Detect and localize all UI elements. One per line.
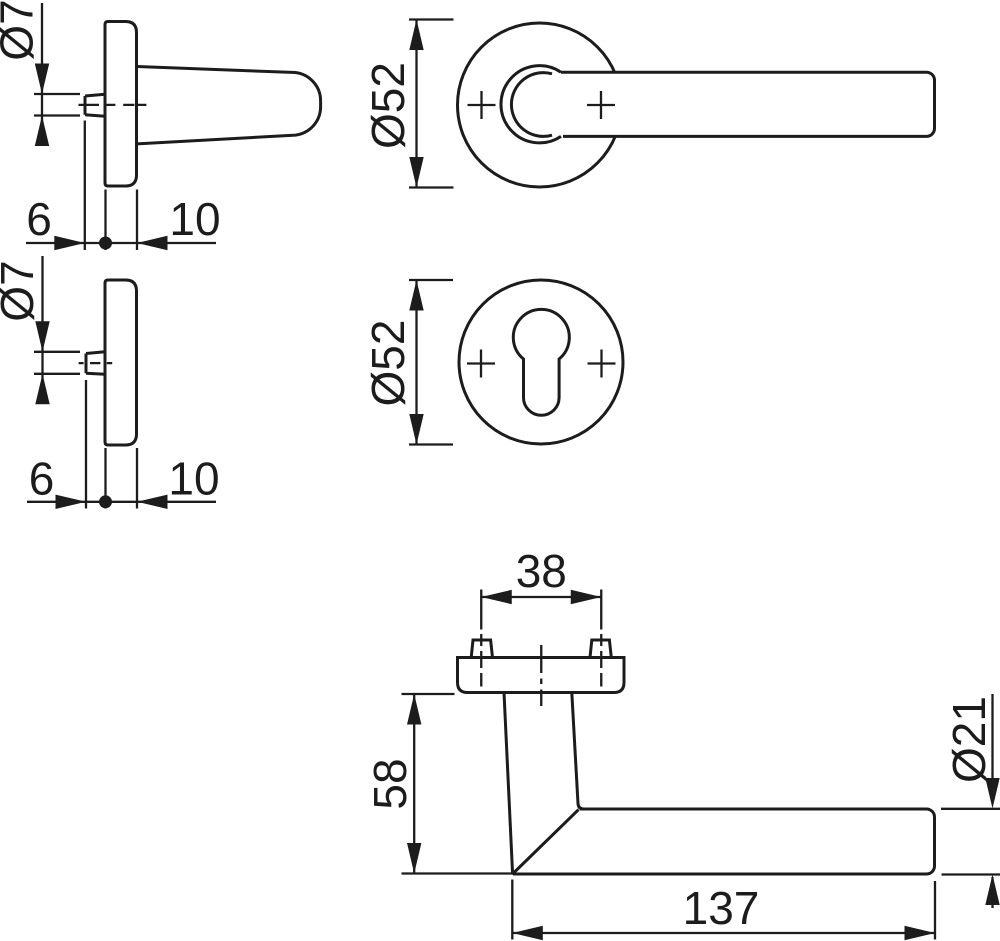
- dimension 58 : ticks: [402, 694, 513, 874]
- dimension Ø52 (view 3) : ticks: [409, 20, 454, 188]
- dimension Ø52 (view 3) : arrow down: [409, 157, 423, 188]
- svg-text:Ø7: Ø7: [0, 260, 43, 321]
- centre line view 2: [79, 362, 113, 364]
- extension lines bottom (view 2): [86, 380, 137, 509]
- dimension Ø7 (view 1) : dim line: [41, 3, 43, 146]
- lever bar white mask: [540, 72, 935, 136]
- extension lines 38: [481, 590, 601, 630]
- dimension 6/10 (view 1) : dim line: [26, 242, 216, 244]
- euro profile keyhole: [513, 309, 569, 415]
- svg-text:Ø52: Ø52: [362, 320, 414, 407]
- neck left edge: [504, 693, 513, 874]
- svg-text:Ø7: Ø7: [0, 0, 43, 61]
- svg-text:6: 6: [29, 453, 55, 505]
- dimension Ø7 (view 2) : dim line: [41, 256, 43, 404]
- dimension 137 : arrow left: [512, 926, 543, 940]
- dimension Ø21 : dim line: [991, 694, 993, 908]
- rose plate side view: [105, 22, 137, 187]
- dimension 6 (view 1) : arrow right: [54, 236, 85, 250]
- svg-text:38: 38: [516, 545, 567, 597]
- dimension 58 : arrow down: [407, 843, 421, 874]
- dimension Ø7 (view 2) : extension lines: [34, 352, 80, 374]
- centre line view 1: [79, 104, 147, 106]
- dimension 38 : arrow left: [481, 590, 512, 604]
- dimension 6 (view 2) : arrow right: [56, 495, 87, 509]
- handle grip side view: [137, 67, 321, 144]
- rose plate side view 2: [105, 280, 137, 445]
- screw boss right: [590, 640, 611, 658]
- lever bar top view: [513, 809, 935, 874]
- dimension 38 : arrow right: [571, 590, 602, 604]
- dimension Ø21 : ticks: [941, 809, 1000, 875]
- spindle peg side view: [85, 94, 105, 116]
- dimension Ø21 : arrow up: [985, 875, 999, 906]
- cylinder peg side view 2: [86, 352, 105, 374]
- neck right edge: [572, 693, 584, 810]
- svg-text:10: 10: [168, 453, 219, 505]
- dimension node dot (view 1): [99, 237, 112, 250]
- neck inner arc: [511, 73, 552, 137]
- dimension 137 : dim line: [512, 932, 935, 934]
- svg-text:137: 137: [683, 882, 760, 934]
- extension lines bottom (view 1): [85, 121, 137, 251]
- dimension Ø7 (view 2) : arrow up: [35, 374, 49, 405]
- dimension 10 (view 1) : arrow left: [137, 236, 168, 250]
- dimension Ø52 (view 4) : arrow down: [409, 414, 423, 445]
- dimension 137 : extension lines: [512, 880, 935, 940]
- dimension Ø52 (view 4) : dim line: [415, 280, 417, 445]
- svg-text:58: 58: [364, 758, 416, 809]
- rose plate top view: [458, 658, 625, 693]
- dimension Ø52 (view 4) : arrow up: [409, 280, 423, 311]
- svg-text:10: 10: [169, 193, 220, 245]
- lever bar outline: [561, 72, 935, 136]
- screw boss left: [471, 640, 492, 658]
- dimension node dot (view 2): [99, 495, 112, 508]
- dimension 6/10 (view 2) : dim line: [27, 501, 216, 503]
- dimension Ø52 (view 3) : dim line: [415, 20, 417, 188]
- dimension 38 : dim line: [481, 596, 601, 598]
- screw cross right (view 4): [588, 350, 616, 378]
- svg-text:6: 6: [26, 193, 52, 245]
- screw cross right (view 3): [587, 91, 615, 119]
- dimension 137 : arrow right: [905, 926, 936, 940]
- escutcheon circle front: [459, 280, 623, 444]
- svg-text:Ø52: Ø52: [362, 62, 414, 149]
- dashed boss centrelines: [481, 634, 601, 687]
- dashed plate centre line: [540, 645, 542, 706]
- screw cross left (view 4): [467, 350, 495, 378]
- dimension Ø52 (view 3) : arrow up: [409, 20, 423, 51]
- dimension Ø52 (view 4) : ticks: [409, 280, 453, 445]
- dimension Ø7 (view 1) : arrow down: [35, 64, 49, 95]
- dimension Ø7 (view 2) : arrow down: [35, 321, 49, 352]
- neck outer arc: [501, 66, 561, 143]
- screw cross left (view 3): [468, 91, 496, 119]
- dimension 58 : arrow up: [407, 694, 421, 725]
- miter seam: [513, 810, 579, 874]
- dimension Ø21 : arrow down: [985, 778, 999, 809]
- rose circle front: [458, 23, 622, 187]
- dimension Ø7 (view 1) : extension lines: [34, 94, 80, 116]
- dimension 58 : dim line: [413, 694, 415, 874]
- dimension 10 (view 2) : arrow left: [137, 495, 168, 509]
- dimension Ø7 (view 1) : arrow up: [35, 116, 49, 147]
- svg-text:Ø21: Ø21: [943, 696, 995, 783]
